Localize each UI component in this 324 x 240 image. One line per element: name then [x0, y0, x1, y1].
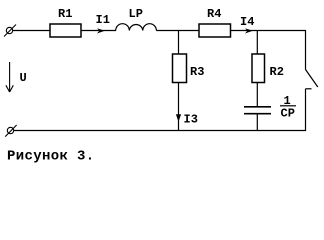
svg-text:I3: I3	[184, 112, 198, 126]
svg-text:I4: I4	[240, 15, 254, 29]
svg-text:R2: R2	[270, 65, 284, 79]
svg-text:CP: CP	[281, 106, 295, 120]
resistor R1	[50, 24, 81, 37]
voltage arrow U	[6, 62, 13, 92]
wire: R3 branch vertical upper	[178, 31, 180, 55]
wire: capacitor to bottom	[256, 114, 258, 131]
svg-text:Рисунок 3.: Рисунок 3.	[7, 148, 95, 164]
svg-text:R4: R4	[207, 7, 221, 21]
wire: coil to R4 (junction node at R3 branch)	[156, 30, 199, 32]
inductor LP	[116, 24, 157, 31]
wire: R3 branch vertical lower	[178, 83, 180, 131]
wire: R4 to right corner	[231, 30, 306, 32]
svg-text:R1: R1	[58, 7, 72, 21]
current arrow I1	[97, 28, 105, 33]
wire: R2 branch vertical upper	[256, 31, 258, 55]
label 1/CP	[280, 94, 296, 120]
terminal (input, bottom-left)	[5, 125, 16, 137]
wire top: terminal to R1	[13, 30, 50, 32]
wire bottom	[14, 130, 306, 132]
resistor R4	[199, 24, 231, 37]
current arrow I4	[245, 28, 253, 33]
resistor R3	[173, 54, 187, 83]
wire: right vertical bottom post	[305, 89, 307, 131]
resistor R2	[252, 54, 265, 83]
terminal (input, top-left)	[4, 25, 16, 37]
current arrow I3	[176, 114, 181, 121]
switch bottom contact tick	[306, 88, 312, 90]
svg-text:LP: LP	[129, 7, 143, 21]
wire: R2 to capacitor	[256, 83, 258, 107]
svg-text:U: U	[20, 71, 27, 85]
capacitor 1/CP	[244, 107, 271, 114]
wire: R1 to coil	[81, 30, 116, 32]
wire: right vertical top post	[305, 30, 307, 70]
switch blade	[306, 70, 318, 88]
svg-text:R3: R3	[190, 65, 204, 79]
svg-text:I1: I1	[96, 13, 110, 27]
